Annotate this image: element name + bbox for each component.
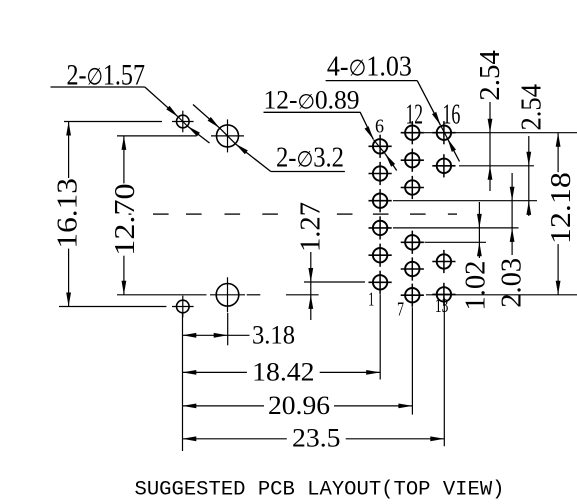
label 2-diam1.57 underline [51, 86, 145, 88]
dim 1.02 text [461, 261, 492, 311]
leader to pin 16 [417, 81, 447, 139]
pin label 13 [435, 295, 449, 317]
ext line col2row4 right [425, 241, 487, 243]
leader tail through pin 16 [447, 138, 459, 161]
pin label 7 [397, 299, 404, 321]
pin 9 (hole &#8709;0.89) [401, 231, 424, 254]
leader arrow into big hole [193, 105, 220, 129]
ext line col1row3 right [393, 200, 537, 202]
pin 5 (hole &#8709;0.89) [369, 162, 392, 185]
svg-text:23.5: 23.5 [292, 424, 341, 453]
label 4-diam1.03 [327, 51, 412, 83]
leader tail through small hole [187, 126, 209, 143]
label 2-diam3.2 underline [271, 171, 345, 173]
svg-text:6: 6 [375, 116, 384, 138]
leader to big hole top [235, 144, 270, 172]
ext line row16 right [424, 132, 577, 134]
svg-text:20.96: 20.96 [268, 391, 330, 420]
svg-text:1: 1 [368, 289, 374, 311]
dim 16.13 line [66, 122, 71, 307]
leader tail through pin 6 [385, 154, 397, 171]
ext line small hole top [64, 121, 162, 123]
ext line small hole down [182, 313, 184, 451]
svg-text:7: 7 [397, 299, 404, 321]
center line (dashed) [129, 213, 458, 215]
leader to pin 6 [360, 112, 385, 154]
pin 4 (hole &#8709;0.89) [369, 189, 392, 212]
svg-text:16: 16 [442, 100, 460, 131]
dim 2.03 line [510, 173, 515, 255]
dim 18.42 line [182, 370, 380, 375]
pin 16 (hole &#8709;1.03) [432, 121, 455, 144]
ext line big hole bottom [117, 294, 319, 296]
dim 20.96 line [182, 404, 412, 409]
dim 1.02 line [477, 202, 482, 258]
ext line pin1 down [379, 294, 381, 379]
svg-text:12: 12 [406, 100, 424, 131]
leader to small hole top [145, 87, 188, 126]
mounting hole &#8709;3.2 top [211, 119, 244, 152]
dim 3.18 text [252, 320, 295, 349]
pin 1 (hole &#8709;0.89) [369, 271, 392, 294]
dim 2.54a line [488, 102, 493, 191]
ext line row15 right [459, 165, 534, 167]
label 2-diam3.2 [276, 143, 344, 174]
dim 23.5 line [182, 436, 444, 441]
mounting hole &#8709;1.57 top [172, 111, 194, 133]
dim 3.18 line [182, 333, 249, 338]
svg-text:3.18: 3.18 [252, 320, 295, 349]
caption SUGGESTED PCB LAYOUT(TOP VIEW) [135, 479, 505, 502]
svg-text:2-∅3.2: 2-∅3.2 [276, 143, 344, 174]
pin 2 (hole &#8709;0.89) [369, 244, 392, 267]
leader slash through big hole [220, 128, 236, 144]
dim 2.54a text [475, 50, 506, 101]
svg-text:2.54: 2.54 [517, 84, 548, 131]
dim 23.5 text [292, 424, 341, 453]
pin 10 (hole &#8709;0.89) [401, 176, 424, 199]
svg-text:1.27: 1.27 [295, 202, 326, 252]
pin label 16 [442, 100, 460, 131]
svg-text:12.18: 12.18 [546, 172, 577, 244]
dim 18.42 text [252, 358, 314, 387]
ext line big hole top [117, 135, 197, 137]
label 4-diam1.03 underline [326, 80, 418, 82]
svg-text:13: 13 [435, 295, 449, 317]
pin 3 (hole &#8709;0.89) [369, 216, 392, 239]
pin 7 (hole &#8709;0.89) [401, 284, 424, 307]
dim 2.54b line [526, 136, 531, 216]
dim 16.13 text [52, 178, 83, 249]
svg-text:2.54: 2.54 [475, 50, 506, 101]
dim 12.70 text [110, 183, 141, 255]
pin 11 (hole &#8709;0.89) [401, 149, 424, 172]
pin label 12 [406, 100, 424, 131]
dim 12.70 line [122, 136, 127, 295]
dim 2.54b text [517, 84, 548, 131]
mounting hole &#8709;3.2 bottom [210, 277, 245, 312]
ext line pin7 down [411, 307, 413, 414]
svg-text:16.13: 16.13 [52, 178, 83, 249]
pin 12 (hole &#8709;0.89) [401, 121, 424, 144]
pin 15 (hole &#8709;1.03) [432, 154, 455, 177]
svg-text:12.70: 12.70 [110, 183, 141, 255]
ext line small hole bottom [59, 306, 166, 308]
ext line big hole down [227, 313, 229, 345]
dim 1.27 text [295, 202, 326, 252]
svg-text:2.03: 2.03 [497, 258, 528, 308]
mounting hole &#8709;1.57 bottom [172, 296, 194, 318]
label 2-diam1.57 [67, 59, 146, 92]
pin 14 (hole &#8709;1.03) [432, 250, 455, 273]
svg-text:18.42: 18.42 [252, 358, 314, 387]
dim 20.96 text [268, 391, 330, 420]
ext line pin1 row left (1.27 dim) [304, 281, 365, 283]
dim 2.03 text [497, 258, 528, 308]
pin label 6 [375, 116, 384, 138]
pin 13 (hole &#8709;1.03) [432, 283, 455, 306]
pin label 1 [368, 289, 374, 311]
dim 1.27 line [308, 252, 313, 320]
svg-text:1.02: 1.02 [461, 261, 492, 311]
pin 8 (hole &#8709;0.89) [401, 257, 424, 280]
ext line col1row4 right [393, 227, 519, 229]
label 12-diam0.89 underline [264, 111, 361, 113]
dim 12.18 text [546, 172, 577, 244]
ext line pin13 down [443, 298, 445, 446]
svg-text:SUGGESTED PCB LAYOUT(TOP VIEW): SUGGESTED PCB LAYOUT(TOP VIEW) [135, 479, 505, 502]
svg-text:4-∅1.03: 4-∅1.03 [327, 51, 412, 83]
dim 12.18 line [556, 133, 561, 295]
ext line bottom row right [426, 294, 577, 296]
label 12-diam0.89 [264, 86, 360, 115]
pin 6 (hole &#8709;0.89) [369, 135, 392, 158]
